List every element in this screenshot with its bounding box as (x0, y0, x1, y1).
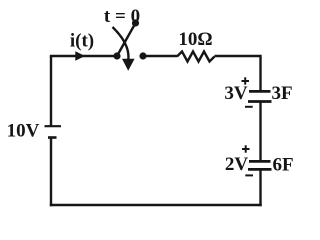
polarity - of C1 (245, 106, 253, 108)
switch S1 top contact (132, 19, 139, 26)
switch S1 right contact (139, 52, 146, 59)
wire C1 to C2 (259, 102, 261, 161)
svg-text:6F: 6F (272, 155, 293, 176)
polarity + of C1 (242, 80, 250, 82)
voltage source V1 10V top plate (45, 125, 62, 127)
svg-text:3V: 3V (224, 83, 248, 104)
svg-text:3F: 3F (271, 83, 292, 104)
svg-text:2V: 2V (225, 154, 249, 175)
capacitor C1 3F (249, 90, 271, 93)
switch S1 blade (117, 23, 136, 56)
wire switch to resistor (143, 55, 177, 57)
switch S1 left contact (113, 52, 120, 59)
wire left vertical bottom segment (50, 138, 52, 207)
wire resistor to top-right corner (215, 55, 261, 57)
voltage source V1 10V bottom plate (48, 136, 57, 139)
svg-text:i(t): i(t) (70, 31, 94, 52)
wire right vertical to C1 (259, 55, 261, 91)
wire left vertical top segment (50, 56, 52, 126)
resistor R1 (177, 52, 215, 62)
polarity + of C2 (242, 148, 250, 150)
wire C2 to bottom-right corner (259, 169, 261, 206)
polarity - of C2 (245, 174, 253, 176)
capacitor C2 6F (249, 160, 271, 163)
wire top-left horizontal segment (50, 55, 117, 57)
switch S1 closing arrow (113, 27, 129, 60)
svg-text:10Ω: 10Ω (178, 29, 212, 50)
wire bottom horizontal (50, 204, 262, 206)
current arrow i(t) (75, 51, 85, 60)
svg-text:10V: 10V (7, 121, 40, 142)
